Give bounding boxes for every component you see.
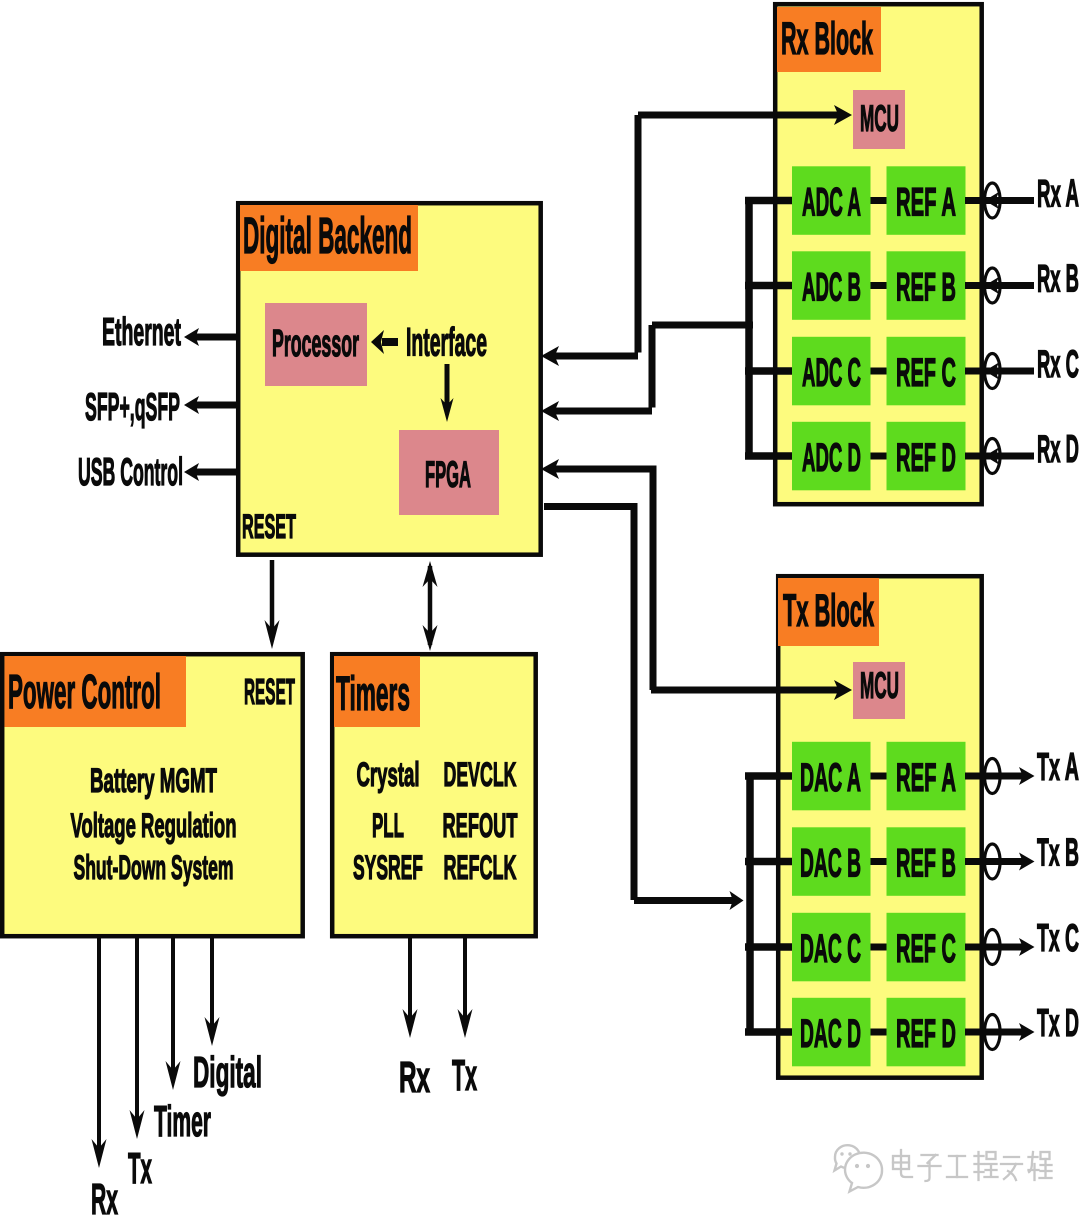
svg-text:Tx: Tx [128, 1144, 152, 1193]
svg-text:REFOUT: REFOUT [443, 807, 518, 845]
svg-text:DAC C: DAC C [800, 927, 861, 971]
svg-text:Digital: Digital [193, 1048, 262, 1097]
svg-text:Tx Block: Tx Block [783, 585, 874, 636]
svg-text:Ethernet: Ethernet [102, 311, 181, 354]
svg-text:Voltage Regulation: Voltage Regulation [71, 807, 237, 845]
svg-text:RESET: RESET [242, 508, 296, 546]
svg-text:Rx C: Rx C [1037, 343, 1079, 386]
svg-text:REF A: REF A [896, 756, 956, 800]
svg-text:Battery MGMT: Battery MGMT [90, 762, 217, 800]
svg-text:DAC D: DAC D [800, 1012, 861, 1056]
svg-text:Tx D: Tx D [1037, 1002, 1079, 1045]
svg-text:Interface: Interface [406, 321, 487, 365]
svg-text:FPGA: FPGA [425, 454, 471, 495]
svg-text:Timers: Timers [336, 668, 410, 721]
svg-text:REF B: REF B [896, 842, 956, 886]
svg-text:Tx A: Tx A [1037, 746, 1079, 789]
svg-text:Shut-Down System: Shut-Down System [74, 849, 234, 887]
svg-text:REF B: REF B [896, 266, 956, 310]
svg-text:Crystal: Crystal [357, 756, 420, 794]
svg-text:REF C: REF C [896, 351, 956, 395]
svg-text:REFCLK: REFCLK [444, 849, 517, 887]
svg-text:Rx Block: Rx Block [781, 13, 873, 64]
svg-text:DAC A: DAC A [800, 756, 861, 800]
svg-text:MCU: MCU [860, 98, 899, 139]
svg-text:Tx C: Tx C [1037, 917, 1079, 960]
svg-text:Power Control: Power Control [8, 666, 161, 719]
svg-text:USB Control: USB Control [78, 451, 183, 494]
svg-text:Rx A: Rx A [1037, 173, 1079, 216]
svg-text:Timer: Timer [154, 1097, 211, 1146]
svg-text:SYSREF: SYSREF [353, 849, 423, 887]
svg-text:Rx D: Rx D [1037, 428, 1079, 471]
svg-text:Tx B: Tx B [1037, 832, 1079, 875]
svg-text:PLL: PLL [372, 807, 404, 845]
svg-text:REF D: REF D [896, 436, 956, 480]
svg-text:Tx: Tx [452, 1051, 477, 1100]
svg-text:Digital Backend: Digital Backend [243, 207, 412, 264]
svg-text:RESET: RESET [244, 671, 295, 712]
svg-text:ADC B: ADC B [802, 266, 861, 310]
svg-text:REF A: REF A [896, 181, 956, 225]
svg-text:MCU: MCU [860, 665, 899, 706]
svg-text:DEVCLK: DEVCLK [444, 756, 517, 794]
svg-text:DAC B: DAC B [800, 842, 861, 886]
svg-text:Rx B: Rx B [1037, 258, 1079, 301]
svg-text:REF D: REF D [896, 1012, 956, 1056]
svg-text:Processor: Processor [272, 323, 359, 365]
svg-text:ADC A: ADC A [802, 181, 861, 225]
svg-text:SFP+,qSFP: SFP+,qSFP [85, 386, 180, 429]
svg-text:ADC C: ADC C [802, 351, 861, 395]
svg-text:Rx: Rx [91, 1175, 118, 1216]
svg-text:Rx: Rx [399, 1053, 430, 1102]
svg-text:REF C: REF C [896, 927, 956, 971]
svg-text:ADC D: ADC D [802, 436, 861, 480]
